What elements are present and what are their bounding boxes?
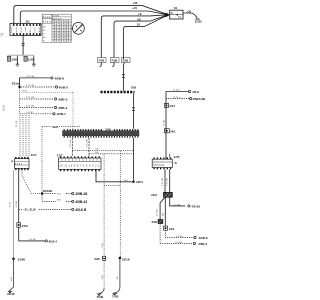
svg-text:11B: 11B — [95, 149, 99, 151]
svg-text:4 3 2 1: 4 3 2 1 — [15, 164, 23, 166]
dashed wire 11B upper — [72, 149, 133, 151]
svg-text:1/30: 1/30 — [11, 58, 17, 62]
svg-text:1 3 5 7 9 11 13 15 17 19 21 23: 1 3 5 7 9 11 13 15 17 19 21 23 25 27 — [64, 134, 101, 136]
wire a lower dotted + branch — [160, 224, 193, 244]
left edge tick marks — [0, 34, 3, 36]
svg-text:24/2: 24/2 — [151, 193, 157, 197]
svg-text:7/39: 7/39 — [111, 59, 117, 63]
wire b lower dotted + branch — [166, 230, 194, 237]
hatched connector 24/2 — [164, 192, 173, 197]
hatched connector 24/9 — [158, 220, 163, 224]
junction dot 30/31B — [41, 192, 43, 194]
left branch B5 — [20, 112, 67, 116]
svg-text:31 31: 31 31 — [3, 104, 6, 111]
svg-text:31 31: 31 31 — [10, 201, 12, 207]
svg-text:31 SB: 31 SB — [163, 120, 165, 126]
svg-text:11 B: 11 B — [102, 275, 104, 280]
svg-text:4/5-29: 4/5-29 — [191, 205, 200, 209]
junction dot 31/31 — [18, 86, 20, 88]
connector strip 24D — [63, 127, 140, 137]
inline box 24/1 upper — [164, 103, 168, 107]
connector block 1/17 — [11, 153, 37, 170]
dotted link at y185.6 — [104, 185, 120, 187]
left branch B2 — [21, 85, 68, 89]
battery feed box 1/1 top right — [170, 6, 183, 19]
svg-text:4/5B-22: 4/5B-22 — [75, 200, 87, 204]
junction dot 21D1 — [132, 181, 134, 183]
wire L4 to component 7/39 — [114, 15, 167, 58]
ground 7/7B — [112, 293, 117, 294]
dashed wire 31/8 to strip — [42, 126, 80, 128]
svg-text:4/5B-1: 4/5B-1 — [57, 112, 67, 116]
svg-text:24/1: 24/1 — [170, 129, 176, 133]
switch 1/30 — [7, 56, 19, 66]
wire L5 to component 7/93 — [123, 16, 166, 59]
svg-text:1/17: 1/17 — [31, 153, 37, 157]
svg-text:6/16 4: 6/16 4 — [49, 240, 58, 244]
svg-text:31 31m: 31 31m — [173, 97, 180, 99]
svg-text:4/5B-28: 4/5B-28 — [75, 192, 87, 196]
svg-text:24/3: 24/3 — [22, 224, 28, 228]
ignition switch circle — [71, 22, 84, 34]
svg-text:4/5B-6: 4/5B-6 — [199, 236, 208, 240]
svg-text:11B: 11B — [124, 180, 128, 182]
svg-text:24/1: 24/1 — [169, 227, 175, 231]
svg-text:21D1: 21D1 — [136, 180, 143, 184]
svg-text:+15: +15 — [132, 6, 137, 10]
svg-text:50: 50 — [137, 17, 141, 21]
svg-text:11B: 11B — [95, 152, 99, 154]
wire v1 gray from block 1/17 — [13, 170, 15, 259]
svg-text:0.75 GR: 0.75 GR — [26, 97, 35, 99]
svg-text:0.75 GR: 0.75 GR — [26, 106, 35, 108]
wire 7/93 down to bus bar — [122, 62, 125, 90]
wire bar-strip continues: strip to corner junction — [96, 138, 134, 182]
svg-text:1 3 5 7 9 2 4: 1 3 5 7 9 2 4 — [11, 30, 41, 33]
inline box 24/1 lower — [164, 129, 169, 133]
wire down to junction — [19, 78, 21, 87]
svg-text:0.75 SB: 0.75 SB — [166, 178, 168, 186]
wire b down to box 24/1 — [164, 197, 166, 226]
svg-text:+X: +X — [138, 12, 142, 16]
svg-text:0.5 GR: 0.5 GR — [26, 112, 33, 114]
inline connector ticks — [122, 75, 125, 78]
svg-text:31B: 31B — [57, 194, 61, 196]
svg-text:22/16: 22/16 — [122, 257, 130, 261]
dashed branch to 4/5B-28 — [43, 193, 71, 195]
svg-text:4/5B-4: 4/5B-4 — [198, 242, 207, 246]
fan junction arrowhead — [166, 13, 171, 18]
stub wire into 17/5 — [169, 154, 171, 158]
wire a: diagonal to x160 — [160, 197, 165, 219]
svg-text:24/1: 24/1 — [169, 104, 175, 108]
left branch B4 — [20, 106, 68, 110]
svg-text:7/45: 7/45 — [98, 59, 104, 63]
svg-text:31 GR: 31 GR — [16, 120, 18, 127]
svg-text:12 11 10 9 8 7 6 5 4 3 2 1: 12 11 10 9 8 7 6 5 4 3 2 1 — [60, 165, 101, 168]
ignition switch table — [42, 14, 71, 42]
svg-text:31/46: 31/46 — [7, 292, 15, 296]
connector block 3/1 — [10, 20, 41, 36]
svg-text:3/31m: 3/31m — [12, 81, 20, 85]
svg-text:11 B: 11 B — [102, 243, 104, 248]
svg-text:0 I II III: 0 I II III — [53, 16, 60, 18]
svg-text:0.75 GR: 0.75 GR — [26, 76, 35, 78]
wire v2 from block 1/17 — [19, 170, 46, 241]
junction dot 31/50 on v1 — [12, 258, 15, 261]
svg-text:+30: +30 — [132, 1, 137, 5]
svg-text:31B: 31B — [57, 200, 61, 202]
svg-text:0.5 SB: 0.5 SB — [174, 204, 181, 206]
svg-text:30 15 X 50: 30 15 X 50 — [53, 18, 62, 20]
svg-text:31/8: 31/8 — [52, 125, 58, 129]
gray header wire to switches — [7, 55, 33, 56]
junction dot 22/16 on x120 — [119, 257, 122, 260]
svg-text:31, 31,B: 31, 31,B — [25, 207, 36, 211]
svg-text:17/7: 17/7 — [57, 153, 63, 157]
wire from block 3/1 down — [22, 35, 24, 55]
svg-text:15: 15 — [137, 22, 141, 26]
dotted vertical x42 down to junction — [41, 127, 43, 194]
svg-text:Power: Power — [43, 16, 52, 19]
svg-text:B: B — [175, 161, 177, 165]
four dotted verticals to block 1/17 — [20, 115, 29, 157]
dashed branch to 4/5B-22 — [42, 195, 72, 202]
component 7/45 — [97, 58, 106, 67]
svg-text:31/50: 31/50 — [18, 257, 26, 261]
switch 1/35 — [24, 56, 36, 66]
solid lower to ground — [114, 258, 120, 293]
svg-text:Start: Start — [43, 20, 52, 23]
dashed module border — [22, 93, 74, 130]
wire bar to strip 24D — [133, 93, 135, 129]
svg-text:4/5B4-6B: 4/5B4-6B — [192, 97, 206, 101]
svg-text:7/2B: 7/2B — [97, 295, 104, 299]
wire strip to block 17/7 pin B — [88, 138, 90, 157]
svg-text:0.5 SB: 0.5 SB — [29, 239, 36, 241]
wires below 17/5 — [164, 169, 166, 192]
right vertical wire — [165, 92, 167, 160]
svg-text:24D: 24D — [105, 127, 110, 131]
dashed wire 11B lower — [89, 153, 134, 155]
svg-text:0.5 SB: 0.5 SB — [16, 200, 18, 207]
svg-text:4/5-6: 4/5-6 — [192, 90, 199, 94]
svg-text:30/31B: 30/31B — [43, 189, 52, 193]
wire L3 to component 7/45 — [101, 15, 167, 58]
svg-text:4/5-6 B: 4/5-6 B — [75, 208, 87, 212]
svg-text:31/30: 31/30 — [195, 20, 202, 24]
dotted x104 lower part to ground — [103, 261, 105, 289]
svg-text:+30: +30 — [187, 10, 192, 13]
terminal circle 4/5B-4 — [45, 240, 47, 242]
inline connector 24/5 on x104 — [94, 256, 105, 261]
component 7/39 — [110, 58, 119, 67]
svg-text:17/5: 17/5 — [174, 155, 180, 159]
inline connector on wire — [22, 44, 25, 46]
ground 31/46 — [8, 291, 12, 292]
inline box 24/3 on v2 — [17, 223, 21, 227]
svg-text:7/93: 7/93 — [122, 59, 128, 63]
dotted vertical from junction — [19, 88, 21, 114]
svg-text:A: A — [11, 159, 13, 163]
right vertical branch R1 — [166, 91, 188, 93]
v1 to ground — [9, 259, 13, 291]
svg-text:0.75 SB: 0.75 SB — [70, 139, 72, 147]
dotted vertical x120 — [119, 151, 121, 258]
svg-text:4/5B-2: 4/5B-2 — [58, 106, 68, 110]
wire W2 second feed — [20, 11, 167, 23]
dashed branch to 4/5-6B — [19, 208, 72, 210]
wire W1 top feed — [14, 6, 167, 24]
component 7/93 — [121, 58, 130, 63]
svg-text:4/5B-5: 4/5B-5 — [59, 85, 69, 89]
dotted vertical x104 — [103, 154, 105, 256]
connector block 17/5 — [152, 155, 180, 170]
svg-text:0.5 SB: 0.5 SB — [175, 242, 182, 244]
ground 7/2B — [97, 294, 102, 295]
svg-text:1/1: 1/1 — [174, 6, 178, 10]
svg-text:0.75 SB: 0.75 SB — [87, 139, 89, 147]
wire strip to block 17/7 pin A — [71, 138, 73, 157]
svg-text:24/5: 24/5 — [94, 257, 100, 261]
left branch B1 — [20, 76, 65, 80]
svg-text:11 B: 11 B — [11, 277, 13, 282]
svg-text:6 5 4 3 2 1: 6 5 4 3 2 1 — [153, 164, 165, 167]
inline box 24/1 bottom — [164, 226, 168, 230]
svg-text:0.5 SB: 0.5 SB — [157, 209, 159, 216]
svg-text:1/35: 1/35 — [28, 58, 34, 62]
svg-text:0.5 SB: 0.5 SB — [176, 236, 183, 238]
output wire to terminal 31/30 — [183, 13, 197, 18]
svg-text:24/9: 24/9 — [151, 220, 157, 224]
svg-text:0.75 SB: 0.75 SB — [162, 178, 164, 186]
svg-text:3/1: 3/1 — [26, 20, 31, 24]
svg-text:21/31: 21/31 — [22, 91, 28, 93]
svg-text:10D: 10D — [131, 86, 136, 90]
svg-text:4/5B-3: 4/5B-3 — [58, 97, 68, 101]
svg-text:7/7B: 7/7B — [112, 294, 119, 298]
left branch B3 — [20, 97, 68, 101]
svg-text:0.75 GR: 0.75 GR — [26, 85, 35, 87]
dotted link block pin to dashed junction — [22, 170, 41, 193]
bus bar 10D — [101, 91, 135, 93]
svg-text:4/5B-8: 4/5B-8 — [55, 76, 65, 80]
svg-text:31 31m: 31 31m — [173, 90, 180, 92]
connector block 17/7 — [57, 153, 101, 171]
right vertical branch R2 — [166, 98, 189, 100]
